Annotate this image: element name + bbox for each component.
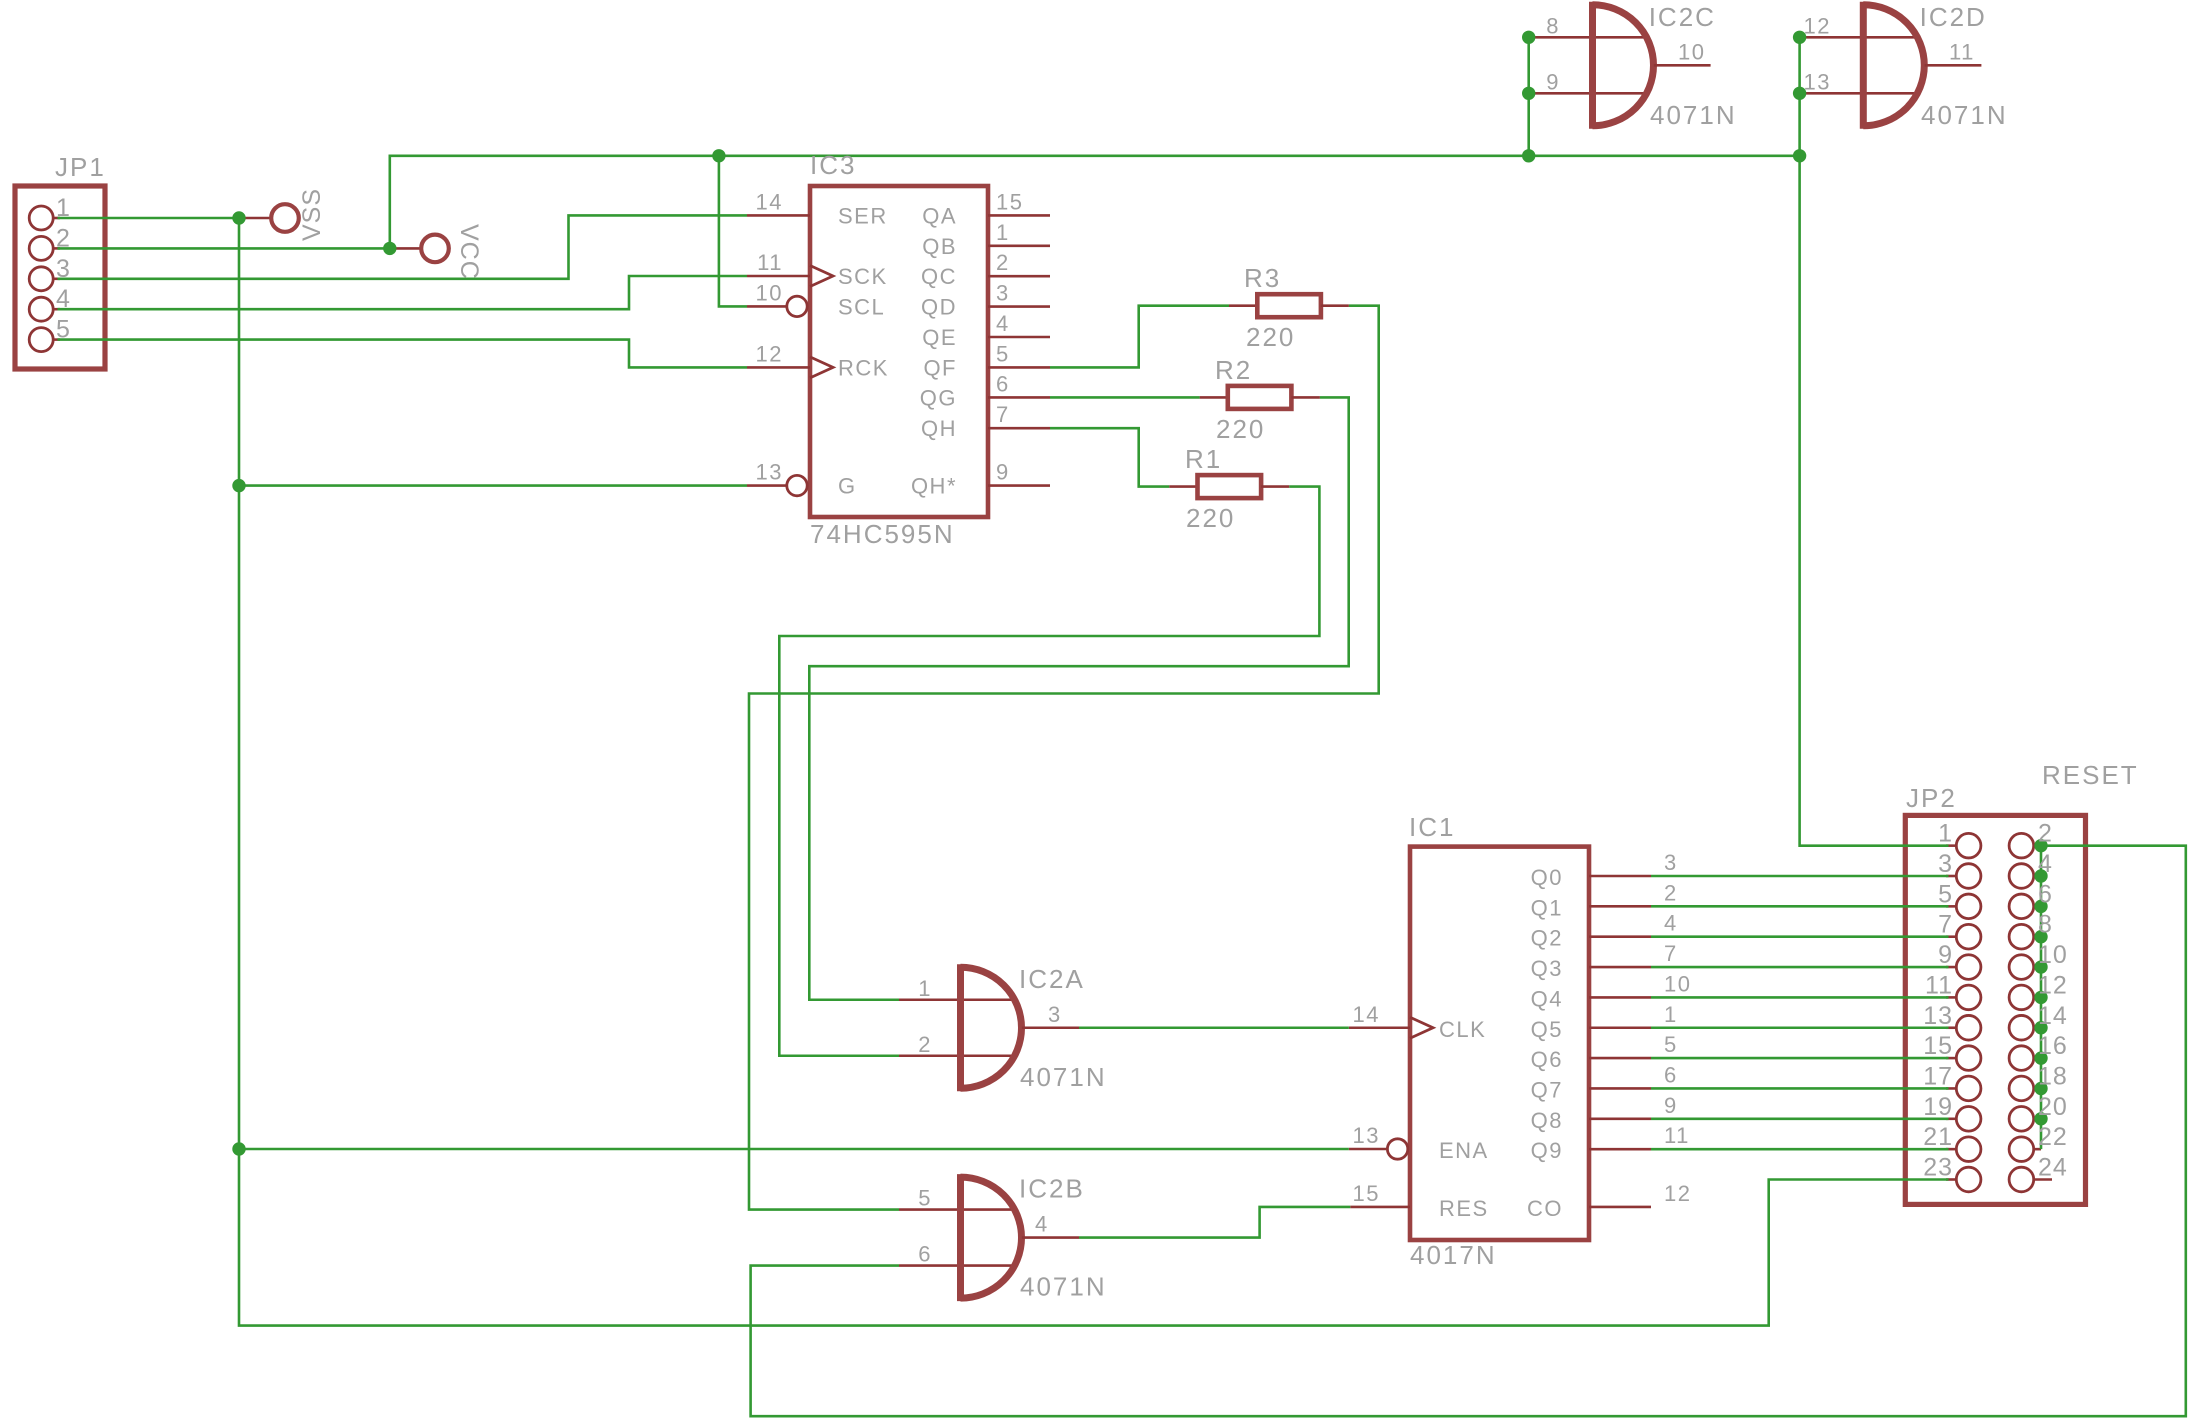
svg-text:R2: R2: [1215, 355, 1252, 385]
svg-text:4017N: 4017N: [1410, 1240, 1497, 1270]
svg-text:IC2D: IC2D: [1920, 2, 1987, 32]
wire JP1.5 to IC3 RCK: [58, 340, 748, 368]
svg-text:4: 4: [56, 285, 71, 313]
node JP2 pin14 junction: [2034, 1021, 2047, 1034]
svg-text:RES: RES: [1439, 1196, 1489, 1221]
svg-text:15: 15: [996, 189, 1023, 214]
wire JP1.4 to IC3 SCK: [58, 276, 748, 309]
svg-text:5: 5: [56, 316, 71, 344]
wire VSS to IC1 ENA pin: [239, 1148, 1349, 1151]
svg-text:8: 8: [2038, 911, 2053, 939]
wire VCC branch up to IC2C inputs: [1527, 37, 1530, 156]
wire VCC: JP1.2 to junction: [58, 247, 390, 250]
resistor R1: [1169, 475, 1289, 498]
svg-text:6: 6: [2038, 880, 2053, 908]
gate IC2D 4071N: [1802, 2, 1981, 129]
svg-text:4071N: 4071N: [1650, 100, 1737, 130]
svg-text:JP1: JP1: [55, 152, 106, 182]
svg-text:QD: QD: [921, 295, 957, 320]
pin Q2 4: [1589, 935, 1651, 938]
gate IC2C 4071N: [1531, 2, 1711, 129]
svg-text:Q6: Q6: [1531, 1047, 1563, 1072]
svg-text:20: 20: [2038, 1093, 2068, 1121]
node junction IC2C pin9: [1522, 87, 1535, 100]
svg-text:3: 3: [56, 255, 71, 283]
pin Q7 6: [1589, 1087, 1651, 1090]
svg-text:5: 5: [918, 1186, 932, 1211]
wire IC1 Q2 to JP2.7: [1651, 935, 1949, 938]
pin QB 1: [988, 245, 1050, 248]
svg-text:IC1: IC1: [1409, 812, 1455, 842]
svg-text:4: 4: [996, 311, 1010, 336]
svg-text:4071N: 4071N: [1921, 100, 2008, 130]
node JP2 pin4 junction: [2034, 869, 2047, 882]
wire IC3 QG to R2 left: [1050, 396, 1200, 399]
gate IC2A 4071N: [899, 964, 1079, 1091]
svg-text:Q4: Q4: [1531, 986, 1563, 1011]
pin QH* 9: [988, 484, 1050, 487]
node VCC junction at SCL branch: [712, 149, 725, 162]
svg-text:Q2: Q2: [1531, 926, 1563, 951]
node VCC junction at IC2C branch: [1522, 149, 1535, 162]
pin Q9 11: [1589, 1148, 1651, 1151]
svg-text:QG: QG: [920, 385, 957, 410]
gate IC2B 4071N: [899, 1174, 1079, 1301]
pin QD 3: [988, 305, 1050, 308]
svg-text:RESET: RESET: [2042, 760, 2139, 790]
svg-text:G: G: [838, 474, 857, 499]
node JP2 pin2 junction: [2034, 839, 2047, 852]
pin CO 12: [1589, 1206, 1651, 1209]
wire R1 right to IC2A pin2: [779, 487, 1319, 1056]
svg-text:12: 12: [1804, 13, 1831, 38]
svg-text:220: 220: [1186, 503, 1235, 533]
wire R3 right to IC2B pin5: [749, 306, 1379, 1210]
svg-text:15: 15: [1923, 1032, 1953, 1060]
svg-text:19: 19: [1923, 1093, 1953, 1121]
svg-text:1: 1: [918, 976, 932, 1001]
svg-text:3: 3: [1938, 850, 1953, 878]
pin RES 15: [1350, 1206, 1410, 1209]
svg-text:2: 2: [56, 224, 71, 252]
svg-text:CO: CO: [1527, 1196, 1563, 1221]
svg-text:Q5: Q5: [1531, 1017, 1563, 1042]
svg-text:7: 7: [1664, 941, 1678, 966]
node JP2 pin18 junction: [2034, 1082, 2047, 1095]
node JP2 pin12 junction: [2034, 991, 2047, 1004]
pin Q3 7: [1589, 966, 1651, 969]
svg-text:QH*: QH*: [911, 474, 957, 499]
wire VCC trunk up and along top: [390, 156, 1800, 249]
svg-text:5: 5: [1664, 1032, 1678, 1057]
svg-text:Q9: Q9: [1531, 1138, 1563, 1163]
svg-text:16: 16: [2038, 1032, 2068, 1060]
svg-text:Q1: Q1: [1531, 895, 1563, 920]
svg-text:6: 6: [996, 371, 1010, 396]
connector JP1: [15, 186, 105, 369]
svg-text:15: 15: [1353, 1181, 1380, 1206]
wire VSS vertical trunk down left side to bottom, to JP2 pin23: [239, 218, 1949, 1326]
svg-text:9: 9: [1664, 1093, 1678, 1118]
pin G 13 with bubble: [747, 484, 787, 487]
pin QF 5: [988, 366, 1050, 369]
node junction IC2D pin13: [1793, 87, 1806, 100]
svg-text:R3: R3: [1244, 263, 1281, 293]
svg-text:11: 11: [1925, 971, 1953, 999]
pin SCK 11 with clock wedge: [747, 275, 810, 278]
svg-text:IC2A: IC2A: [1019, 964, 1085, 994]
pin SCL 10 with bubble: [747, 305, 787, 308]
node JP2 pin20 junction: [2034, 1112, 2047, 1125]
wire IC1 Q7 to JP2.17: [1651, 1087, 1949, 1090]
svg-text:4: 4: [1035, 1212, 1049, 1237]
svg-text:R1: R1: [1185, 444, 1222, 474]
pin SER 14: [747, 214, 810, 217]
svg-text:14: 14: [1353, 1002, 1380, 1027]
svg-text:4071N: 4071N: [1020, 1272, 1107, 1302]
wire VSS to IC3 G pin: [239, 484, 747, 487]
JP2 left column circles and stubs: [1946, 833, 1981, 1191]
pin Q8 9: [1589, 1118, 1651, 1121]
svg-text:10: 10: [1664, 971, 1691, 996]
svg-text:4071N: 4071N: [1020, 1062, 1107, 1092]
pin Q0 3: [1589, 875, 1651, 878]
wire R2 right to IC2A pin1: [809, 397, 1348, 999]
svg-text:QF: QF: [923, 355, 957, 380]
svg-text:14: 14: [2038, 1002, 2068, 1030]
svg-text:3: 3: [1664, 850, 1678, 875]
pin QC 2: [988, 275, 1050, 278]
wire IC2B output to IC1 RES: [1079, 1207, 1350, 1238]
pin QE 4: [988, 336, 1050, 339]
svg-text:QB: QB: [922, 234, 957, 259]
wire IC1 Q6 to JP2.15: [1651, 1057, 1949, 1060]
svg-text:Q0: Q0: [1531, 865, 1563, 890]
pin QH 7: [988, 427, 1050, 430]
svg-text:VCC: VCC: [455, 224, 483, 280]
wire IC3 QH to R1 left: [1050, 428, 1169, 486]
wire IC1 Q8 to JP2.19: [1651, 1118, 1949, 1121]
svg-text:13: 13: [1353, 1123, 1380, 1148]
svg-text:IC3: IC3: [810, 150, 856, 180]
pin QG 6: [988, 396, 1050, 399]
svg-text:17: 17: [1923, 1062, 1953, 1090]
svg-text:6: 6: [1664, 1062, 1678, 1087]
node VSS junction at JP1.1: [232, 211, 245, 224]
svg-text:9: 9: [996, 460, 1010, 485]
node JP2 pin8 junction: [2034, 930, 2047, 943]
svg-text:1: 1: [56, 194, 71, 222]
node junction IC2C pin8: [1522, 31, 1535, 44]
svg-text:1: 1: [996, 220, 1010, 245]
wire IC1 Q4 to JP2.11: [1651, 996, 1949, 999]
svg-text:CLK: CLK: [1439, 1017, 1486, 1042]
svg-text:8: 8: [1546, 13, 1560, 38]
wire IC1 Q1 to JP2.5: [1651, 905, 1949, 908]
resistor R3: [1229, 294, 1349, 317]
svg-text:IC2C: IC2C: [1649, 2, 1716, 32]
svg-text:4: 4: [2038, 850, 2053, 878]
svg-text:Q8: Q8: [1531, 1108, 1563, 1133]
svg-text:10: 10: [1678, 39, 1705, 64]
svg-text:22: 22: [2038, 1123, 2068, 1151]
svg-text:13: 13: [1804, 69, 1831, 94]
svg-text:24: 24: [2038, 1154, 2068, 1182]
resistor R2: [1200, 386, 1320, 409]
wire IC1 Q3 to JP2.9: [1651, 966, 1949, 969]
wire VCC branch down to IC3 SCL: [719, 156, 747, 307]
supply symbol VSS: [239, 204, 299, 232]
node VSS junction at ENA wire: [232, 1142, 245, 1155]
svg-text:220: 220: [1216, 414, 1265, 444]
svg-text:10: 10: [756, 280, 783, 305]
svg-text:Q7: Q7: [1531, 1077, 1563, 1102]
svg-text:7: 7: [1938, 911, 1953, 939]
svg-text:QA: QA: [922, 203, 957, 228]
wire IC2A output to IC1 CLK: [1079, 1026, 1349, 1029]
svg-text:RCK: RCK: [838, 355, 889, 380]
svg-text:12: 12: [756, 341, 783, 366]
svg-text:SER: SER: [838, 203, 888, 228]
svg-text:6: 6: [918, 1242, 932, 1267]
wire IC1 Q9 to JP2.21: [1651, 1148, 1949, 1151]
supply symbol VCC: [390, 235, 449, 263]
pin Q6 5: [1589, 1057, 1651, 1060]
svg-text:2: 2: [2038, 820, 2053, 848]
node JP2 pin16 junction: [2034, 1051, 2047, 1064]
wire VSS: JP1.1 to junction: [58, 217, 240, 220]
svg-text:4: 4: [1664, 911, 1678, 936]
svg-text:QC: QC: [921, 264, 957, 289]
svg-text:74HC595N: 74HC595N: [810, 519, 955, 549]
IC IC3 74HC595N box: [747, 186, 1050, 517]
svg-text:5: 5: [996, 341, 1010, 366]
node JP2 pin10 junction: [2034, 960, 2047, 973]
svg-text:23: 23: [1923, 1154, 1953, 1182]
svg-text:QE: QE: [922, 325, 957, 350]
svg-text:11: 11: [1664, 1123, 1690, 1148]
svg-text:7: 7: [996, 402, 1010, 427]
svg-text:1: 1: [1938, 820, 1953, 848]
svg-text:2: 2: [996, 250, 1010, 275]
svg-text:14: 14: [756, 189, 783, 214]
svg-text:Q3: Q3: [1531, 956, 1563, 981]
svg-text:IC2B: IC2B: [1019, 1174, 1085, 1204]
pin ENA 13 with bubble: [1349, 1148, 1387, 1151]
svg-text:SCL: SCL: [838, 294, 885, 319]
svg-text:11: 11: [757, 250, 783, 275]
svg-text:QH: QH: [921, 416, 957, 441]
wire JP1.3 to IC3 SER: [58, 215, 748, 278]
wire VCC vertical through IC2D inputs down to JP2.1: [1800, 37, 1949, 845]
svg-text:2: 2: [1664, 880, 1678, 905]
wire IC2C input 8 link: [1529, 36, 1531, 39]
svg-text:9: 9: [1938, 941, 1953, 969]
svg-text:9: 9: [1546, 69, 1560, 94]
svg-text:12: 12: [2038, 971, 2068, 999]
node junction IC2D pin12: [1793, 31, 1806, 44]
svg-text:5: 5: [1938, 880, 1953, 908]
svg-text:SCK: SCK: [838, 264, 888, 289]
node VCC junction at JP1.2: [383, 242, 396, 255]
svg-text:JP2: JP2: [1906, 783, 1957, 813]
svg-text:220: 220: [1246, 322, 1295, 352]
pin Q4 10: [1589, 996, 1651, 999]
svg-text:VSS: VSS: [298, 188, 326, 241]
JP2 right column circles and stubs: [2009, 833, 2052, 1191]
svg-text:21: 21: [1923, 1123, 1953, 1151]
wire RESET: IC2B pin6 along bottom and right edge to JP2 pin2: [751, 846, 2186, 1417]
pin QA 15: [988, 214, 1050, 217]
IC IC1 4017N box: [1349, 847, 1651, 1240]
pin Q1 2: [1589, 905, 1651, 908]
svg-text:13: 13: [1923, 1002, 1953, 1030]
svg-text:12: 12: [1664, 1181, 1691, 1206]
pin RCK 12 with clock wedge: [747, 366, 810, 369]
node JP2 pin6 junction: [2034, 900, 2047, 913]
wire IC2C input 9 link: [1529, 92, 1531, 95]
svg-text:18: 18: [2038, 1062, 2068, 1090]
svg-text:ENA: ENA: [1439, 1138, 1489, 1163]
wire JP2 right column bus vertical: [2040, 846, 2043, 1150]
wire IC1 Q5 to JP2.13: [1651, 1026, 1949, 1029]
wire IC3 QF to R3 left: [1050, 306, 1229, 368]
svg-text:11: 11: [1949, 39, 1975, 64]
svg-text:3: 3: [996, 281, 1010, 306]
node VSS junction at G wire: [232, 479, 245, 492]
svg-text:1: 1: [1664, 1002, 1678, 1027]
svg-text:3: 3: [1048, 1002, 1062, 1027]
pin CLK 14 with clock wedge: [1349, 1026, 1410, 1029]
wire IC1 Q0 to JP2.3: [1651, 875, 1949, 878]
connector JP2: [1905, 815, 2085, 1204]
svg-text:10: 10: [2038, 941, 2068, 969]
node VCC junction at IC2D branch: [1793, 149, 1806, 162]
svg-text:2: 2: [918, 1032, 932, 1057]
svg-text:13: 13: [756, 460, 783, 485]
pin Q5 1: [1589, 1026, 1651, 1029]
